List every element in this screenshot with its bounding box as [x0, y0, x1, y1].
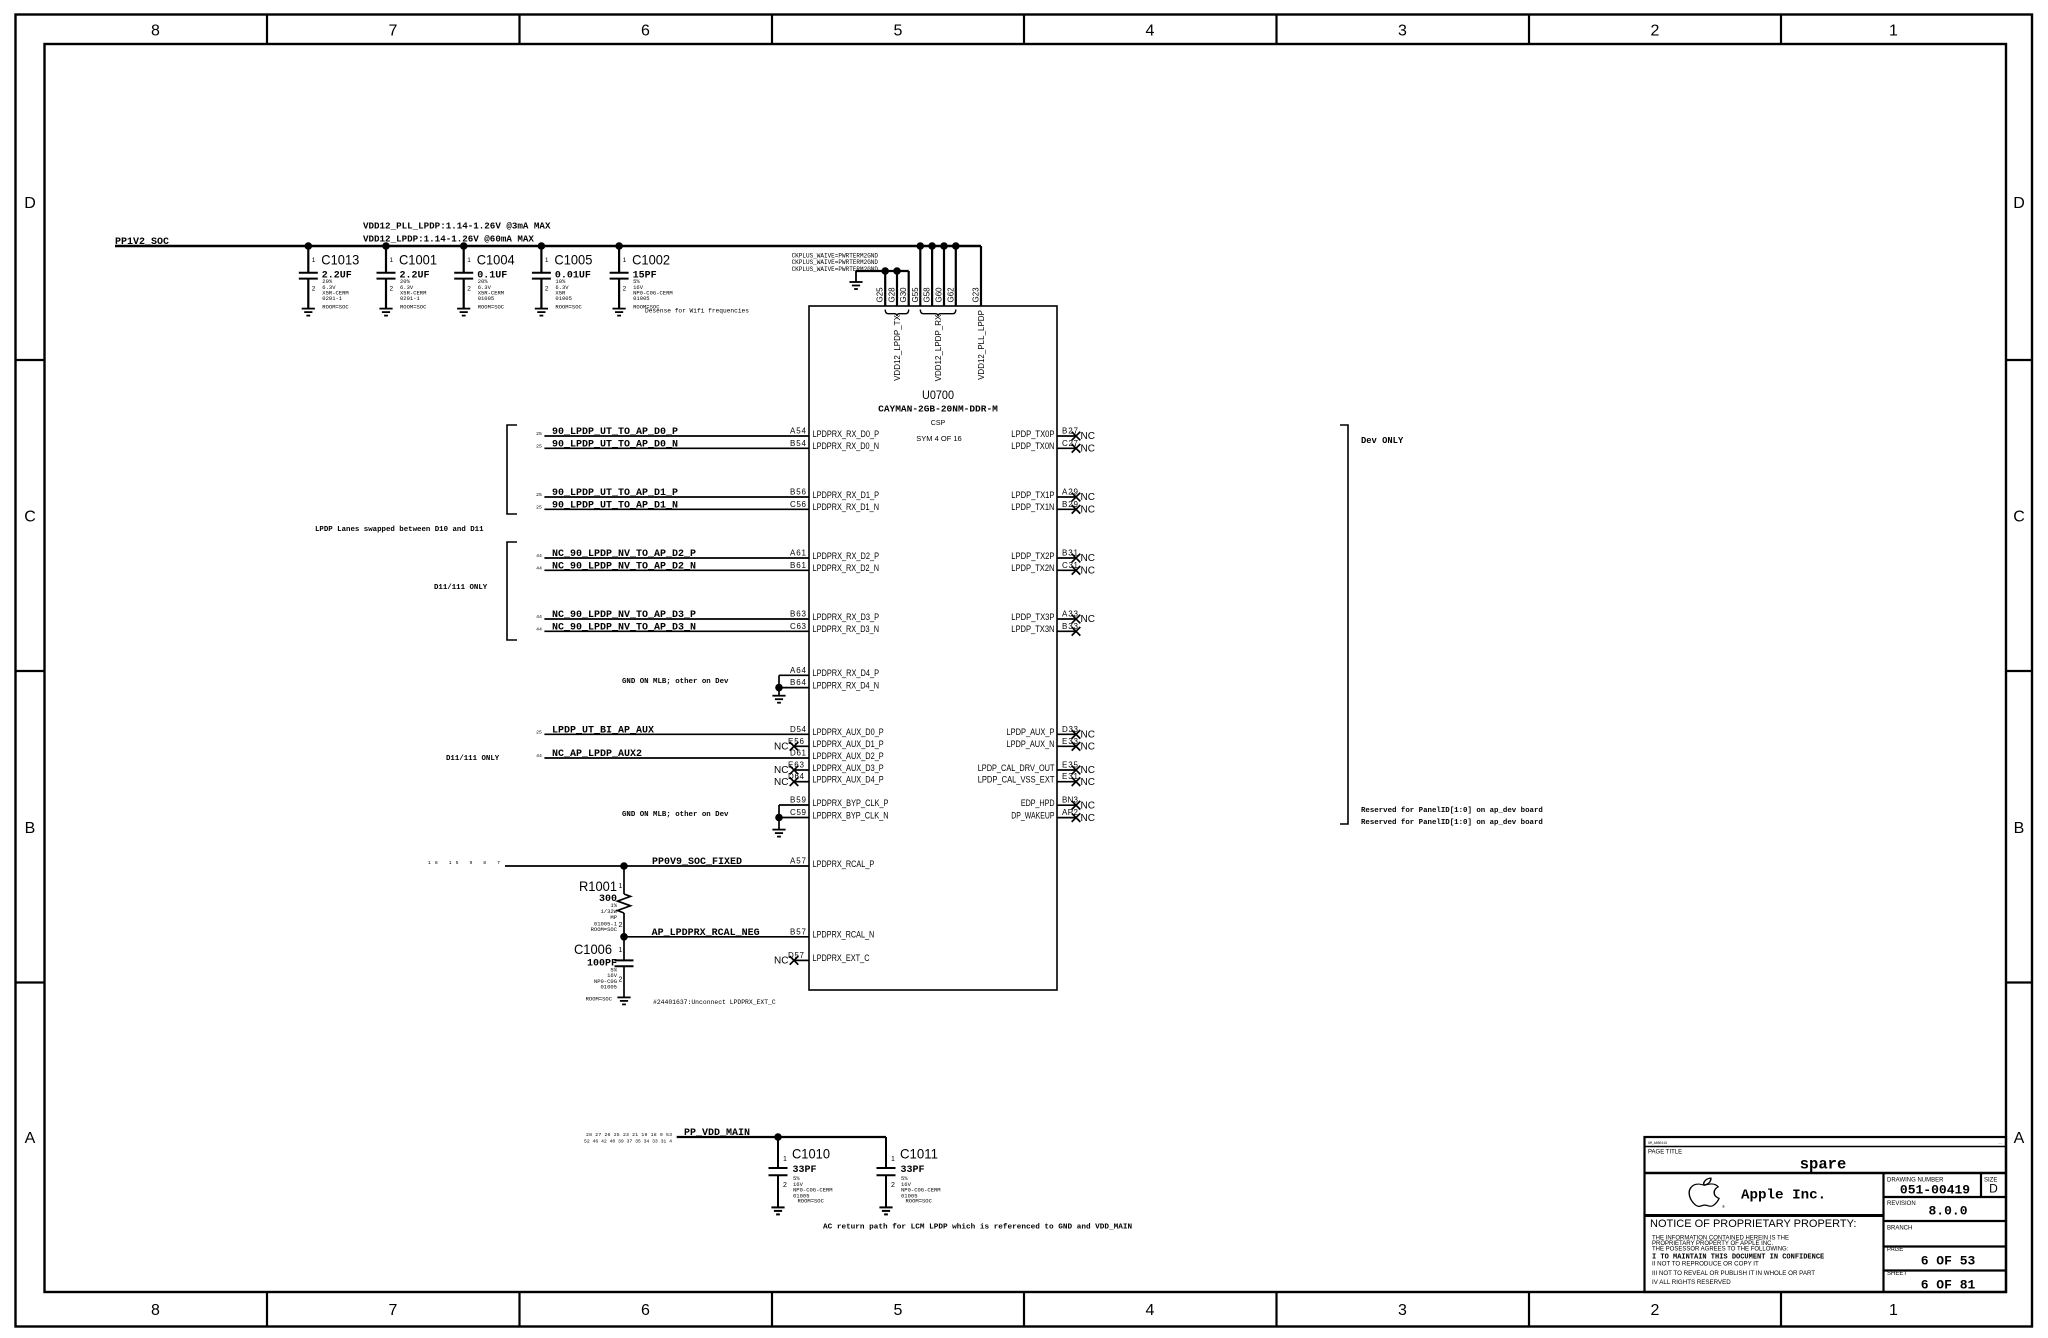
svg-text:#24401637:Unconnect LPDPRX_EXT: #24401637:Unconnect LPDPRX_EXT_C [653, 999, 776, 1006]
row ticks right band [2006, 360, 2032, 983]
svg-text:G58: G58 [923, 287, 932, 303]
wire B64 to ground [779, 687, 809, 689]
svg-text:1: 1 [312, 257, 316, 264]
junction on PP1V2_SOC at C1002 [615, 242, 623, 250]
svg-text:NC_90_LPDP_NV_TO_AP_D3_P: NC_90_LPDP_NV_TO_AP_D3_P [552, 610, 696, 621]
svg-text:NC: NC [1081, 431, 1095, 442]
junction on PP1V2_SOC rail [952, 242, 960, 250]
svg-text:THE POSESSOR AGREES TO THE FOL: THE POSESSOR AGREES TO THE FOLLOWING: [1652, 1246, 1789, 1252]
svg-text:D: D [2013, 195, 2025, 212]
junction on PP1V2_SOC at C1005 [538, 242, 546, 250]
net VDD12_LPDP_TX label [893, 314, 902, 380]
ground (C1004) [457, 309, 470, 316]
svg-text:01005: 01005 [478, 295, 495, 302]
svg-text:LPDP_AUX_P: LPDP_AUX_P [1007, 727, 1055, 737]
resistor R1001 [579, 866, 631, 937]
BRANCH cell [1884, 1245, 2007, 1247]
wire net NC_90_LPDP_NV_TO_AP_D2_P to pin A61 [544, 557, 809, 559]
svg-text:LPDPRX_RX_D1_P: LPDPRX_RX_D1_P [813, 490, 880, 500]
svg-text:ROOM=SOC: ROOM=SOC [798, 1198, 825, 1205]
svg-text:Reserved for PanelID[1:0] on a: Reserved for PanelID[1:0] on ap_dev boar… [1361, 819, 1543, 827]
svg-text:1: 1 [467, 257, 471, 264]
svg-text:ROOM=SOC: ROOM=SOC [478, 303, 505, 310]
svg-text:PAGE TITLE: PAGE TITLE [1648, 1150, 1682, 1156]
svg-text:LPDPRX_RCAL_P: LPDPRX_RCAL_P [813, 859, 875, 869]
wire net NC_90_LPDP_NV_TO_AP_D3_P to pin B63 [544, 618, 809, 620]
bracket D0/D1 group [507, 425, 517, 514]
svg-text:IV ALL RIGHTS RESERVED: IV ALL RIGHTS RESERVED [1652, 1279, 1731, 1286]
svg-text:1: 1 [619, 947, 623, 954]
Apple logo outline [1689, 1178, 1719, 1206]
svg-text:VDD12_LPDP_RX: VDD12_LPDP_RX [934, 314, 943, 381]
title block: top strip [1645, 1146, 2007, 1148]
wire vertical B59/C59 gnd [778, 805, 780, 830]
junction PP_VDD_MAIN / C1010 [774, 1133, 782, 1141]
wire NC stub pin E56 [794, 745, 809, 747]
svg-text:LPDP_TX1P: LPDP_TX1P [1011, 490, 1054, 500]
wire A64 to ground [779, 674, 809, 676]
capacitor C1010 [769, 1137, 833, 1207]
wire NC stub pin E33 [1057, 745, 1076, 747]
svg-text:LPDPRX_RX_D2_N: LPDPRX_RX_D2_N [813, 563, 880, 573]
capacitor C1013 [299, 246, 360, 310]
svg-text:D11/111 ONLY: D11/111 ONLY [446, 755, 500, 763]
svg-text:2: 2 [467, 286, 471, 293]
svg-text:A: A [25, 1130, 36, 1147]
svg-text:PAGE: PAGE [1887, 1247, 1903, 1253]
wire NC stub pin E63 [794, 769, 809, 771]
svg-text:GND ON MLB; other on Dev: GND ON MLB; other on Dev [622, 811, 729, 819]
ground (C1010) [771, 1207, 784, 1214]
wire NC stub pin E31 [1057, 781, 1076, 783]
row ticks left band [16, 360, 45, 983]
svg-text:NC_90_LPDP_NV_TO_AP_D2_N: NC_90_LPDP_NV_TO_AP_D2_N [552, 562, 696, 573]
svg-text:3: 3 [1398, 1302, 1407, 1319]
svg-text:051-00419: 051-00419 [1900, 1183, 1970, 1198]
wire C59 to ground [779, 817, 809, 819]
wire PP1V2_SOC rail [115, 245, 981, 247]
wire pin G55 vertical [919, 246, 921, 306]
svg-text:VDD12_LPDP_TX: VDD12_LPDP_TX [893, 314, 902, 380]
svg-text:01005: 01005 [633, 295, 650, 302]
svg-text:C1004: C1004 [477, 252, 515, 268]
svg-text:LPDPRX_RX_D1_N: LPDPRX_RX_D1_N [813, 502, 880, 512]
svg-text:LPDPRX_RX_D0_P: LPDPRX_RX_D0_P [813, 429, 880, 439]
title block outer [1645, 1137, 2007, 1292]
wire pin G25 vertical [884, 271, 886, 306]
no-connect X pin A33 [1072, 615, 1081, 624]
svg-text:LPDPRX_RX_D3_N: LPDPRX_RX_D3_N [813, 624, 880, 634]
svg-text:1: 1 [619, 883, 623, 890]
junction A64/B64 [775, 684, 783, 692]
svg-text:D57: D57 [788, 951, 805, 960]
pin number G25 [876, 287, 885, 303]
svg-text:SYM 4 OF 16: SYM 4 OF 16 [916, 434, 961, 443]
ground (C1011) [879, 1207, 892, 1214]
svg-text:25: 25 [536, 431, 542, 437]
wire net 90_LPDP_UT_TO_AP_D1_P to pin B56 [544, 496, 809, 498]
column labels top [151, 23, 1898, 40]
junction on PP1V2_SOC rail [928, 242, 936, 250]
svg-text:GND ON MLB; other on Dev: GND ON MLB; other on Dev [622, 678, 729, 686]
svg-text:LPDPRX_RCAL_N: LPDPRX_RCAL_N [813, 930, 875, 940]
no-connect X pin B31 [1072, 554, 1081, 563]
svg-text:7: 7 [389, 23, 398, 40]
svg-text:B63: B63 [790, 610, 807, 619]
brace VDD12_LPDP_RX group [920, 310, 956, 317]
svg-text:D11/111 ONLY: D11/111 ONLY [434, 584, 488, 592]
svg-text:0201-1: 0201-1 [322, 295, 343, 302]
svg-text:D54: D54 [790, 725, 807, 734]
svg-text:1: 1 [390, 257, 394, 264]
svg-text:2: 2 [390, 286, 394, 293]
svg-text:Desense for Wifi frequencies: Desense for Wifi frequencies [645, 308, 749, 315]
svg-text:CAYMAN-2GB-20NM-DDR-M: CAYMAN-2GB-20NM-DDR-M [878, 404, 998, 415]
pin number G30 [899, 287, 908, 303]
svg-text:NC: NC [1081, 614, 1095, 625]
svg-text:NC: NC [774, 742, 788, 753]
svg-text:5: 5 [894, 1302, 903, 1319]
svg-text:NC_90_LPDP_NV_TO_AP_D2_P: NC_90_LPDP_NV_TO_AP_D2_P [552, 549, 696, 560]
row labels left [24, 195, 36, 1147]
wire NC stub pin A33 [1057, 618, 1076, 620]
wire NC stub pin B29 [1057, 508, 1076, 510]
svg-text:C31: C31 [1062, 561, 1079, 570]
svg-text:3: 3 [1398, 23, 1407, 40]
svg-text:B61: B61 [790, 561, 807, 570]
junction G25 bus [881, 267, 889, 275]
svg-text:D33: D33 [1062, 725, 1079, 734]
svg-text:LPDP_CAL_VSS_EXT: LPDP_CAL_VSS_EXT [978, 775, 1055, 785]
svg-text:2: 2 [312, 286, 316, 293]
svg-text:2: 2 [1651, 1302, 1660, 1319]
capacitor C1006 [574, 937, 634, 1003]
svg-text:B33: B33 [1062, 622, 1079, 631]
svg-text:2: 2 [783, 1182, 787, 1189]
svg-text:7: 7 [389, 1302, 398, 1319]
svg-text:SHEET: SHEET [1887, 1271, 1907, 1277]
pin number G55 [911, 287, 920, 303]
ground (C1001) [379, 309, 392, 316]
wire NC stub pin AP2 [1057, 817, 1076, 819]
title block: PAGE TITLE row [1645, 1172, 2007, 1175]
svg-text:G28: G28 [888, 287, 897, 303]
pin number G62 [946, 287, 955, 303]
op-amp/IC U0700 body [809, 306, 1057, 990]
svg-text:C: C [2013, 509, 2025, 526]
svg-text:CSP: CSP [931, 420, 946, 427]
svg-text:C1001: C1001 [399, 252, 437, 268]
no-connect X pin B27 [1072, 432, 1081, 441]
svg-text:6: 6 [641, 23, 650, 40]
svg-text:1: 1 [545, 257, 549, 264]
svg-text:GM_A8B0119: GM_A8B0119 [1648, 1141, 1667, 1145]
svg-text:Apple Inc.: Apple Inc. [1741, 1188, 1826, 1204]
svg-text:C63: C63 [790, 622, 807, 631]
svg-text:NC: NC [1081, 730, 1095, 741]
svg-text:C56: C56 [790, 500, 807, 509]
wire pin G62 vertical [955, 246, 957, 306]
ground (A64/B64) [772, 696, 785, 703]
svg-text:B: B [25, 820, 36, 837]
bracket D2/D3 group [507, 542, 517, 640]
svg-text:44: 44 [536, 565, 542, 571]
svg-text:0201-1: 0201-1 [400, 295, 421, 302]
title block: vertical divider [1882, 1173, 1884, 1292]
svg-text:ROOM=SOC: ROOM=SOC [591, 926, 618, 933]
capacitor C1011 [877, 1137, 941, 1207]
svg-text:D64: D64 [788, 772, 805, 781]
svg-text:2: 2 [545, 286, 549, 293]
junction on PP1V2_SOC rail [917, 242, 925, 250]
capacitor C1002 [610, 246, 673, 310]
svg-text:G60: G60 [935, 287, 944, 303]
svg-text:A: A [2014, 1130, 2025, 1147]
svg-text:Reserved for PanelID[1:0] on a: Reserved for PanelID[1:0] on ap_dev boar… [1361, 807, 1543, 815]
bracket Dev ONLY [1340, 425, 1348, 824]
wire NC stub pin BN3 [1057, 804, 1076, 806]
svg-text:A57: A57 [790, 857, 807, 866]
svg-text:NC_90_LPDP_NV_TO_AP_D3_N: NC_90_LPDP_NV_TO_AP_D3_N [552, 623, 696, 634]
svg-text:C27: C27 [1062, 439, 1079, 448]
svg-text:BRANCH: BRANCH [1887, 1226, 1912, 1232]
svg-text:LPDP_TX1N: LPDP_TX1N [1011, 502, 1054, 512]
junction B59/C59 [775, 814, 783, 822]
svg-text:LPDP_TX0N: LPDP_TX0N [1011, 441, 1054, 451]
svg-text:52 46 42 40 39 37 35 34 33 31: 52 46 42 40 39 37 35 34 33 31 4 [584, 1139, 672, 1145]
no-connect X pin B29 [1072, 505, 1081, 514]
svg-text:1: 1 [623, 257, 627, 264]
column labels bottom [151, 1302, 1898, 1319]
svg-text:25: 25 [536, 504, 542, 510]
svg-text:90_LPDP_UT_TO_AP_D1_N: 90_LPDP_UT_TO_AP_D1_N [552, 501, 678, 512]
svg-text:LPDPRX_BYP_CLK_N: LPDPRX_BYP_CLK_N [813, 810, 889, 820]
svg-text:NC: NC [774, 956, 788, 967]
wire NC stub pin B33 [1057, 630, 1076, 632]
svg-text:E31: E31 [1062, 772, 1079, 781]
no-connect X pin D57 [790, 956, 799, 965]
svg-text:90_LPDP_UT_TO_AP_D0_P: 90_LPDP_UT_TO_AP_D0_P [552, 427, 678, 438]
svg-text:NC: NC [1081, 765, 1095, 776]
svg-text:NC: NC [1081, 777, 1095, 788]
svg-text:LPDPRX_AUX_D0_P: LPDPRX_AUX_D0_P [813, 727, 884, 737]
junction PP0V9_SOC_FIXED / R1001 [620, 862, 628, 870]
note CKPLUS_WAIVE x3 [792, 252, 879, 273]
svg-text:NC: NC [774, 765, 788, 776]
svg-text:NC: NC [1081, 444, 1095, 455]
svg-text:VDD12_PLL_LPDP: VDD12_PLL_LPDP [977, 310, 986, 380]
svg-text:ROOM=SOC: ROOM=SOC [906, 1198, 933, 1205]
svg-text:C59: C59 [790, 808, 807, 817]
PAGE cell [1884, 1269, 2007, 1271]
svg-text:BN3: BN3 [1062, 796, 1079, 805]
svg-text:25: 25 [536, 443, 542, 449]
svg-text:D: D [24, 195, 36, 212]
svg-text:LPDPRX_BYP_CLK_P: LPDPRX_BYP_CLK_P [813, 798, 889, 808]
wire net 90_LPDP_UT_TO_AP_D1_N to pin C56 [544, 508, 809, 510]
wire net NC_AP_LPDP_AUX2 to pin D61 [544, 757, 809, 759]
svg-text:LPDP_TX2N: LPDP_TX2N [1011, 563, 1054, 573]
wire NC stub pin D57 [794, 959, 809, 961]
svg-text:PP_VDD_MAIN: PP_VDD_MAIN [684, 1128, 750, 1139]
svg-text:C1013: C1013 [321, 252, 359, 268]
svg-text:E33: E33 [1062, 737, 1079, 746]
svg-text:LPDPRX_AUX_D2_P: LPDPRX_AUX_D2_P [813, 751, 884, 761]
svg-text:B27: B27 [1062, 427, 1079, 436]
wire NC stub pin B27 [1057, 435, 1076, 437]
svg-text:LPDP_CAL_DRV_OUT: LPDP_CAL_DRV_OUT [978, 763, 1055, 773]
svg-text:EDP_HPD: EDP_HPD [1021, 798, 1055, 808]
no-connect X pin D33 [1072, 730, 1081, 739]
svg-text:2: 2 [1651, 23, 1660, 40]
svg-text:E56: E56 [788, 737, 805, 746]
no-connect X pin D64 [790, 777, 799, 786]
svg-text:C1002: C1002 [632, 252, 670, 268]
no-connect X pin E63 [790, 766, 799, 775]
svg-text:C1011: C1011 [900, 1146, 938, 1162]
no-connect X pin E33 [1072, 742, 1081, 751]
svg-text:LPDP_AUX_N: LPDP_AUX_N [1007, 739, 1055, 749]
pin number G58 [923, 287, 932, 303]
no-connect X pin B33 [1072, 627, 1081, 636]
svg-text:A54: A54 [790, 427, 807, 436]
svg-text:AP2: AP2 [1062, 808, 1079, 817]
no-connect X pin A29 [1072, 493, 1081, 502]
svg-text:G23: G23 [972, 287, 981, 303]
pin number G23 [972, 287, 981, 303]
svg-text:2: 2 [619, 977, 623, 984]
REVISION cell [1884, 1220, 2007, 1222]
svg-text:--: -- [1998, 1141, 2002, 1145]
svg-text:2: 2 [623, 286, 627, 293]
svg-text:8: 8 [151, 1302, 160, 1319]
wire AP_LPDPRX_RCAL_NEG to B57 [624, 936, 809, 938]
ground (G25/G28/G30 bus) [855, 271, 857, 282]
svg-text:2: 2 [619, 922, 623, 929]
wire pin G23 vertical [980, 246, 982, 306]
svg-text:LPDPRX_RX_D0_N: LPDPRX_RX_D0_N [813, 441, 880, 451]
svg-text:NC: NC [1081, 800, 1095, 811]
svg-text:AP_LPDPRX_RCAL_NEG: AP_LPDPRX_RCAL_NEG [652, 928, 760, 939]
svg-text:G25: G25 [876, 287, 885, 303]
wire pin G60 vertical [943, 246, 945, 306]
svg-text:NC: NC [1081, 505, 1095, 516]
svg-text:A29: A29 [1062, 488, 1079, 497]
wire NC stub pin A29 [1057, 496, 1076, 498]
svg-text:4: 4 [1146, 23, 1155, 40]
svg-text:5: 5 [894, 23, 903, 40]
wire NC stub pin C27 [1057, 447, 1076, 449]
svg-text:C: C [24, 509, 36, 526]
junction R1001/C1006 [620, 933, 628, 941]
svg-text:ROOM=SOC: ROOM=SOC [400, 303, 427, 310]
no-connect X pin C27 [1072, 444, 1081, 453]
svg-text:25: 25 [536, 492, 542, 498]
no-connect X pin BN3 [1072, 801, 1081, 810]
svg-text:1: 1 [891, 1156, 895, 1163]
svg-text:®: ® [1722, 1204, 1725, 1209]
svg-text:01005: 01005 [600, 984, 617, 991]
row labels right [2013, 195, 2025, 1147]
svg-text:A61: A61 [790, 549, 807, 558]
svg-text:NC: NC [1081, 566, 1095, 577]
wire pin G30 vertical [908, 271, 910, 306]
svg-text:1: 1 [1889, 23, 1898, 40]
wire NC stub pin E35 [1057, 769, 1076, 771]
wire ground bus for G25 G28 G30 [856, 270, 909, 272]
svg-text:44: 44 [536, 614, 542, 620]
svg-text:ROOM=SOC: ROOM=SOC [555, 303, 582, 310]
svg-text:B: B [2014, 820, 2025, 837]
svg-text:44: 44 [536, 753, 542, 759]
svg-text:B59: B59 [790, 796, 807, 805]
svg-text:C1006: C1006 [574, 941, 612, 957]
wire pin G58 vertical [931, 246, 933, 306]
junction on PP1V2_SOC rail [940, 242, 948, 250]
svg-text:NC: NC [1081, 813, 1095, 824]
svg-text:LPDP_TX3N: LPDP_TX3N [1011, 624, 1054, 634]
svg-text:NC: NC [774, 777, 788, 788]
wire net 90_LPDP_UT_TO_AP_D0_N to pin B54 [544, 447, 809, 449]
svg-text:LPDP Lanes swapped between D10: LPDP Lanes swapped between D10 and D11 [315, 526, 484, 534]
wire net NC_90_LPDP_NV_TO_AP_D2_N to pin B61 [544, 569, 809, 571]
svg-text:8: 8 [151, 23, 160, 40]
svg-text:NOTICE OF PROPRIETARY PROPERTY: NOTICE OF PROPRIETARY PROPERTY: [1650, 1218, 1856, 1230]
svg-text:6 OF 81: 6 OF 81 [1921, 1278, 1976, 1293]
svg-text:spare: spare [1800, 1156, 1847, 1174]
svg-text:1: 1 [783, 1156, 787, 1163]
title block: NOTICE top [1645, 1214, 1884, 1217]
svg-text:PP0V9_SOC_FIXED: PP0V9_SOC_FIXED [652, 857, 742, 868]
svg-text:B64: B64 [790, 678, 807, 687]
svg-text:B29: B29 [1062, 500, 1079, 509]
svg-text:90_LPDP_UT_TO_AP_D0_N: 90_LPDP_UT_TO_AP_D0_N [552, 440, 678, 451]
svg-text:LPDPRX_AUX_D3_P: LPDPRX_AUX_D3_P [813, 763, 884, 773]
svg-text:B57: B57 [790, 927, 807, 936]
svg-text:LPDPRX_EXT_C: LPDPRX_EXT_C [813, 953, 870, 963]
pin number G60 [935, 287, 944, 303]
wire pin G28 vertical [896, 271, 898, 306]
svg-text:LPDP_TX3P: LPDP_TX3P [1011, 612, 1054, 622]
wire net 90_LPDP_UT_TO_AP_D0_P to pin A54 [544, 435, 809, 437]
no-connect X pin E56 [790, 742, 799, 751]
wire vertical A64/B64 gnd [778, 675, 780, 695]
wire PP_VDD_MAIN [677, 1136, 886, 1138]
wire PP0V9_SOC_FIXED to A57 [505, 865, 809, 867]
svg-text:ROOM=SOC: ROOM=SOC [322, 303, 349, 310]
svg-text:VDD12_PLL_LPDP:1.14-1.26V @3mA: VDD12_PLL_LPDP:1.14-1.26V @3mA MAX [363, 221, 551, 232]
wire NC stub pin D64 [794, 781, 809, 783]
svg-text:28 27 26 25 23 21 19 18 9 53: 28 27 26 25 23 21 19 18 9 53 [586, 1132, 672, 1138]
svg-text:B56: B56 [790, 488, 807, 497]
svg-text:44: 44 [536, 626, 542, 632]
svg-text:D: D [1989, 1182, 1998, 1196]
column ticks top band [267, 15, 1781, 45]
wire NC stub pin D33 [1057, 733, 1076, 735]
wire net NC_90_LPDP_NV_TO_AP_D3_N to pin C63 [544, 630, 809, 632]
svg-text:E63: E63 [788, 761, 805, 770]
DRAWING NUMBER cell [1884, 1196, 2007, 1198]
svg-text:LPDPRX_AUX_D4_P: LPDPRX_AUX_D4_P [813, 775, 884, 785]
svg-text:R1001: R1001 [579, 878, 617, 894]
pin number G28 [888, 287, 897, 303]
junction on PP1V2_SOC at C1004 [460, 242, 468, 250]
svg-text:NC: NC [1081, 492, 1095, 503]
wire NC stub pin C31 [1057, 569, 1076, 571]
svg-text:VDD12_LPDP:1.14-1.26V @60mA M: VDD12_LPDP:1.14-1.26V @60mA MAX [363, 234, 534, 245]
svg-text:AC return path for LCM LPDP wh: AC return path for LCM LPDP which is ref… [823, 1224, 1132, 1232]
ground (C1013) [302, 309, 315, 316]
